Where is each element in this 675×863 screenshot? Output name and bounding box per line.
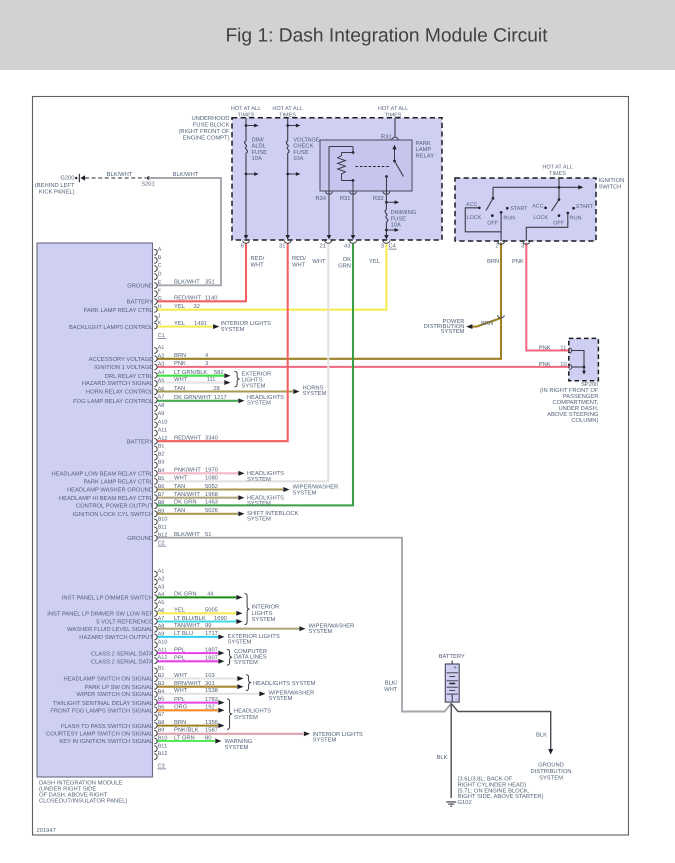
svg-text:BLK: BLK	[437, 755, 448, 761]
svg-text:Fig 1: Dash Integration Module: Fig 1: Dash Integration Module Circuit	[225, 26, 548, 47]
svg-text:SYSTEM: SYSTEM	[247, 400, 271, 407]
svg-text:3: 3	[521, 243, 524, 250]
svg-text:HEADLAMP HI BEAM RELAY CTRL: HEADLAMP HI BEAM RELAY CTRL	[59, 495, 154, 502]
svg-text:2: 2	[495, 243, 498, 250]
svg-text:PARK LAMP RELAY CTRL: PARK LAMP RELAY CTRL	[84, 479, 154, 486]
svg-text:RED/: RED/	[251, 255, 265, 262]
svg-text:BLK/WHT: BLK/WHT	[173, 171, 199, 178]
svg-text:(IN RIGHT FRONT OF: (IN RIGHT FRONT OF	[540, 387, 599, 394]
svg-text:B1: B1	[158, 444, 165, 450]
svg-text:6: 6	[241, 243, 244, 250]
svg-text:WHT: WHT	[174, 688, 188, 694]
svg-text:TAN: TAN	[174, 508, 185, 514]
svg-text:B7: B7	[158, 712, 165, 718]
svg-text:SYSTEM: SYSTEM	[309, 628, 333, 635]
svg-text:5005: 5005	[205, 607, 218, 614]
svg-text:SYSTEM: SYSTEM	[234, 659, 258, 666]
svg-text:GRN: GRN	[338, 263, 351, 270]
svg-text:FUSE BLOCK: FUSE BLOCK	[193, 122, 230, 129]
svg-text:B3: B3	[158, 460, 165, 466]
svg-text:A4: A4	[158, 592, 165, 598]
svg-text:HOT AT ALL: HOT AT ALL	[542, 165, 572, 171]
svg-text:SYSTEM: SYSTEM	[252, 616, 276, 623]
svg-text:B9: B9	[158, 508, 165, 514]
svg-text:1356: 1356	[205, 719, 218, 726]
svg-text:LOCK: LOCK	[467, 215, 482, 221]
svg-text:FUSE: FUSE	[391, 215, 407, 222]
svg-text:B4: B4	[158, 468, 165, 474]
svg-text:ALDL: ALDL	[252, 144, 267, 150]
svg-text:B2: B2	[158, 452, 165, 458]
svg-text:BRN: BRN	[487, 259, 499, 265]
svg-text:RUN: RUN	[503, 215, 515, 221]
svg-text:301: 301	[205, 680, 215, 687]
svg-text:LT BLU: LT BLU	[174, 631, 193, 637]
svg-text:A7: A7	[158, 616, 165, 622]
svg-text:1538: 1538	[205, 687, 218, 694]
svg-text:DISTRIBUTION: DISTRIBUTION	[531, 768, 572, 775]
svg-text:PNK: PNK	[512, 259, 524, 265]
svg-text:FOG LAMP RELAY CONTROL: FOG LAMP RELAY CONTROL	[73, 398, 154, 405]
svg-text:INTERIOR LIGHTS: INTERIOR LIGHTS	[221, 320, 271, 327]
svg-text:FUSE: FUSE	[293, 149, 309, 156]
svg-text:ACC: ACC	[532, 204, 543, 210]
svg-text:C1: C1	[158, 333, 165, 339]
svg-text:A8: A8	[158, 624, 165, 630]
svg-text:PNK: PNK	[539, 345, 551, 351]
svg-text:H: H	[158, 304, 162, 310]
svg-text:PNK: PNK	[539, 362, 551, 368]
svg-text:31: 31	[279, 243, 285, 250]
svg-text:10: 10	[560, 361, 566, 368]
svg-text:C2: C2	[158, 541, 165, 547]
svg-text:DRL RELAY CTRL: DRL RELAY CTRL	[105, 373, 154, 380]
svg-text:43: 43	[344, 243, 350, 250]
svg-text:HEADLIGHTS SYSTEM: HEADLIGHTS SYSTEM	[253, 680, 316, 687]
svg-text:SYSTEM: SYSTEM	[234, 714, 258, 721]
svg-text:B5: B5	[158, 476, 165, 482]
svg-text:R33: R33	[373, 195, 384, 202]
svg-text:PNK: PNK	[174, 361, 186, 367]
svg-text:CHECK: CHECK	[293, 143, 313, 150]
svg-text:TIMES: TIMES	[238, 113, 255, 119]
svg-text:80: 80	[205, 734, 211, 741]
svg-text:5052: 5052	[205, 483, 218, 490]
svg-text:BLK/WHT: BLK/WHT	[174, 279, 200, 286]
svg-text:RED/WHT: RED/WHT	[174, 435, 202, 442]
svg-text:FRONT FOG LAMPS SWITCH SIGNAL: FRONT FOG LAMPS SWITCH SIGNAL	[50, 708, 153, 715]
svg-text:A5: A5	[158, 378, 165, 384]
svg-text:1807: 1807	[205, 655, 218, 662]
svg-text:B6: B6	[158, 704, 165, 710]
svg-text:E: E	[158, 280, 162, 286]
svg-text:(BEHIND LEFT: (BEHIND LEFT	[35, 182, 75, 189]
svg-text:B7: B7	[158, 492, 165, 498]
svg-text:BLK/: BLK/	[385, 679, 398, 686]
svg-text:LT GRN: LT GRN	[174, 734, 195, 741]
svg-text:SP200: SP200	[581, 381, 598, 388]
svg-text:A7: A7	[158, 395, 165, 401]
svg-text:BLK/WHT: BLK/WHT	[174, 531, 200, 538]
svg-text:SYSTEM: SYSTEM	[247, 500, 271, 507]
svg-text:PARK LP SW ON SIGNAL: PARK LP SW ON SIGNAL	[85, 684, 154, 691]
svg-text:B2: B2	[158, 673, 165, 679]
svg-text:10A: 10A	[252, 155, 262, 162]
svg-text:10A: 10A	[391, 222, 401, 229]
svg-text:WHT: WHT	[174, 673, 188, 679]
svg-text:WHT: WHT	[251, 263, 265, 269]
svg-text:ACCESSORY VOLTAGE: ACCESSORY VOLTAGE	[89, 356, 153, 363]
svg-text:BRN: BRN	[174, 720, 186, 726]
svg-text:-: -	[455, 697, 457, 704]
svg-text:BLK/WHT: BLK/WHT	[107, 171, 133, 178]
svg-text:S201: S201	[141, 181, 155, 188]
svg-text:SYSTEM: SYSTEM	[303, 390, 327, 397]
svg-text:YEL: YEL	[174, 608, 186, 614]
svg-text:A2: A2	[158, 576, 165, 582]
svg-text:C4: C4	[389, 243, 397, 250]
svg-text:G102: G102	[458, 799, 472, 806]
svg-text:PPL: PPL	[174, 656, 186, 662]
svg-text:B: B	[158, 255, 162, 261]
svg-text:START: START	[576, 204, 594, 210]
svg-text:INTERIOR: INTERIOR	[252, 603, 280, 610]
svg-text:A6: A6	[158, 608, 165, 614]
svg-text:1140: 1140	[205, 295, 217, 302]
svg-text:LT GRN/BLK: LT GRN/BLK	[174, 369, 207, 376]
svg-text:COURTESY LAMP SWITCH ON SIGNAL: COURTESY LAMP SWITCH ON SIGNAL	[46, 731, 154, 738]
svg-text:EXTERIOR: EXTERIOR	[242, 370, 272, 377]
svg-text:1463: 1463	[205, 499, 218, 506]
svg-text:21: 21	[320, 243, 326, 250]
svg-text:3: 3	[205, 360, 208, 367]
svg-text:1587: 1587	[205, 727, 218, 734]
svg-text:B8: B8	[158, 720, 165, 726]
svg-text:HEADLIGHTS: HEADLIGHTS	[234, 707, 271, 714]
svg-text:LT BLU/BLK: LT BLU/BLK	[174, 615, 206, 622]
svg-text:DK GRN/WHT: DK GRN/WHT	[174, 394, 212, 401]
svg-text:PPL: PPL	[174, 697, 186, 703]
svg-text:WHT: WHT	[384, 687, 398, 693]
svg-text:1807: 1807	[205, 646, 218, 653]
svg-text:INST PANEL LP DIMMER SWITCH: INST PANEL LP DIMMER SWITCH	[62, 595, 153, 602]
svg-text:BRN/WHT: BRN/WHT	[174, 680, 202, 687]
svg-text:LIGHTS: LIGHTS	[242, 376, 263, 383]
svg-text:YEL: YEL	[369, 259, 381, 265]
svg-text:VOLTAGE: VOLTAGE	[293, 136, 320, 143]
svg-text:B9: B9	[158, 728, 165, 734]
svg-text:B5: B5	[158, 697, 165, 703]
svg-text:TAN: TAN	[174, 386, 185, 392]
svg-text:44: 44	[207, 592, 214, 598]
svg-text:SYSTEM: SYSTEM	[539, 775, 563, 782]
svg-text:B6: B6	[158, 484, 165, 490]
svg-text:PARK LAMP RELAY CTRL: PARK LAMP RELAY CTRL	[84, 307, 154, 314]
svg-text:(RIGHT FRONT OF: (RIGHT FRONT OF	[179, 128, 230, 135]
svg-text:+: +	[453, 665, 457, 672]
svg-text:GROUND: GROUND	[127, 535, 153, 542]
svg-text:3340: 3340	[205, 435, 218, 442]
svg-text:B1: B1	[158, 665, 165, 671]
svg-text:START: START	[510, 206, 528, 212]
svg-text:FLASH TO PASS SWITCH SIGNAL: FLASH TO PASS SWITCH SIGNAL	[61, 723, 154, 730]
svg-text:CLOSEOUT/INSULATOR PANEL): CLOSEOUT/INSULATOR PANEL)	[39, 798, 127, 805]
svg-text:K: K	[158, 321, 162, 327]
svg-text:OFF: OFF	[487, 221, 498, 227]
svg-text:1717: 1717	[205, 631, 218, 637]
svg-text:351: 351	[205, 279, 215, 286]
svg-text:ORG: ORG	[174, 704, 188, 711]
svg-text:A: A	[158, 247, 162, 253]
svg-text:1690: 1690	[214, 615, 227, 622]
svg-text:HOT AT ALL: HOT AT ALL	[272, 106, 302, 112]
svg-text:CLASS 2 SERIAL DATA: CLASS 2 SERIAL DATA	[91, 650, 153, 657]
svg-text:PNK/WHT: PNK/WHT	[174, 467, 201, 474]
svg-text:HOT AT ALL: HOT AT ALL	[378, 106, 408, 112]
svg-text:B10: B10	[158, 516, 168, 522]
svg-text:DIM/: DIM/	[252, 136, 265, 143]
svg-text:1080: 1080	[205, 475, 218, 482]
svg-text:ABOVE STEERING: ABOVE STEERING	[547, 411, 599, 418]
svg-text:111: 111	[207, 377, 216, 383]
svg-text:YEL: YEL	[174, 321, 186, 327]
svg-text:TAN: TAN	[174, 484, 185, 490]
svg-text:SYSTEM: SYSTEM	[441, 328, 465, 335]
svg-text:A6: A6	[158, 386, 165, 392]
svg-text:CONTROL POWER OUTPUT: CONTROL POWER OUTPUT	[76, 503, 154, 510]
svg-text:G200: G200	[60, 174, 74, 181]
svg-text:A10: A10	[158, 639, 168, 645]
svg-text:A12: A12	[158, 655, 168, 661]
svg-text:SYSTEM: SYSTEM	[293, 489, 317, 496]
svg-text:B4: B4	[158, 689, 165, 695]
svg-text:A2: A2	[158, 353, 165, 359]
svg-text:HAZARD SWITCH OUTPUT: HAZARD SWITCH OUTPUT	[79, 634, 153, 641]
svg-text:BATTERY: BATTERY	[127, 439, 153, 445]
svg-text:PASSENGER: PASSENGER	[563, 393, 599, 400]
svg-text:UNDERHOOD: UNDERHOOD	[191, 115, 229, 122]
svg-text:B8: B8	[158, 500, 165, 506]
svg-text:GROUND: GROUND	[538, 761, 564, 768]
svg-text:1217: 1217	[214, 394, 227, 401]
svg-text:DASH INTEGRATION MODULE: DASH INTEGRATION MODULE	[39, 780, 122, 787]
svg-text:B12: B12	[158, 533, 168, 539]
svg-text:R34: R34	[315, 195, 326, 202]
svg-text:32: 32	[194, 303, 200, 310]
svg-text:1968: 1968	[205, 491, 218, 498]
svg-text:BACKLIGHT LAMPS CONTROL: BACKLIGHT LAMPS CONTROL	[69, 324, 154, 331]
svg-text:A3: A3	[158, 584, 165, 590]
svg-text:B11: B11	[158, 743, 167, 749]
svg-text:RED/WHT: RED/WHT	[174, 295, 202, 302]
svg-text:5 VOLT REFERENCE: 5 VOLT REFERENCE	[96, 619, 153, 626]
svg-text:WIPER SWITCH ON SIGNAL: WIPER SWITCH ON SIGNAL	[76, 691, 153, 698]
svg-text:A4: A4	[158, 370, 165, 376]
svg-text:PPL: PPL	[174, 647, 186, 653]
svg-text:PNK/BLK: PNK/BLK	[174, 727, 199, 734]
svg-text:SYSTEM: SYSTEM	[247, 476, 271, 483]
svg-text:B3: B3	[158, 681, 165, 687]
svg-text:SYSTEM: SYSTEM	[313, 737, 337, 744]
svg-text:IGNITION 1 VOLTAGE: IGNITION 1 VOLTAGE	[94, 364, 153, 371]
svg-text:DK: DK	[343, 257, 351, 263]
svg-text:WHT: WHT	[174, 476, 188, 482]
svg-text:SYSTEM: SYSTEM	[221, 326, 245, 333]
svg-text:COLUMN): COLUMN)	[571, 417, 598, 424]
svg-text:IGNITION LOCK CYL SWITCH: IGNITION LOCK CYL SWITCH	[73, 511, 153, 518]
svg-text:HOT AT ALL: HOT AT ALL	[231, 106, 261, 112]
svg-text:A11: A11	[158, 428, 167, 434]
svg-text:BRN: BRN	[481, 321, 493, 327]
svg-text:28: 28	[213, 385, 219, 392]
svg-text:5026: 5026	[205, 507, 218, 514]
svg-text:BRN: BRN	[174, 353, 186, 359]
svg-text:103: 103	[205, 672, 215, 679]
svg-text:A9: A9	[158, 411, 165, 417]
svg-text:201947: 201947	[37, 827, 56, 834]
svg-text:B10: B10	[158, 736, 168, 742]
svg-text:DK GRN: DK GRN	[174, 499, 197, 506]
svg-text:TAN/WHT: TAN/WHT	[174, 491, 200, 498]
svg-text:582: 582	[214, 369, 224, 376]
svg-text:LIGHTS: LIGHTS	[252, 610, 273, 617]
svg-text:A10: A10	[158, 419, 168, 425]
svg-text:A8: A8	[158, 403, 165, 409]
svg-text:3: 3	[381, 243, 384, 250]
svg-text:HAZARD SWITCH SIGNAL: HAZARD SWITCH SIGNAL	[82, 380, 154, 387]
svg-text:RED/: RED/	[292, 255, 306, 262]
svg-text:SYSTEM: SYSTEM	[269, 695, 293, 702]
svg-text:WHT: WHT	[292, 263, 306, 269]
svg-text:LOCK: LOCK	[533, 215, 548, 221]
svg-text:GROUND: GROUND	[127, 283, 153, 290]
svg-text:1970: 1970	[205, 467, 218, 474]
svg-text:(UNDER RIGHT SIDE: (UNDER RIGHT SIDE	[39, 786, 96, 793]
svg-text:C3: C3	[158, 763, 165, 769]
svg-text:A9: A9	[158, 632, 165, 638]
svg-text:TIMES: TIMES	[549, 171, 566, 177]
svg-text:R32: R32	[381, 134, 392, 141]
svg-text:SYSTEM: SYSTEM	[228, 639, 252, 646]
svg-text:SWITCH: SWITCH	[599, 183, 622, 190]
svg-text:TIMES: TIMES	[279, 113, 296, 119]
svg-text:SYSTEM: SYSTEM	[225, 744, 249, 751]
svg-text:SYSTEM: SYSTEM	[247, 516, 271, 523]
svg-text:99: 99	[205, 622, 211, 629]
svg-text:COMPARTMENT,: COMPARTMENT,	[553, 399, 599, 406]
svg-text:51: 51	[205, 532, 211, 538]
svg-text:PARK: PARK	[416, 141, 431, 147]
svg-text:HEADLAMP SWITCH ON SIGNAL: HEADLAMP SWITCH ON SIGNAL	[64, 676, 154, 683]
svg-text:RUN: RUN	[570, 215, 582, 221]
svg-text:ACC: ACC	[466, 202, 477, 208]
svg-text:WHT: WHT	[312, 259, 326, 265]
svg-text:IGNITION: IGNITION	[599, 177, 625, 184]
svg-text:11: 11	[560, 345, 566, 351]
svg-text:HEADLAMP LOW BEAM RELAY CTRL: HEADLAMP LOW BEAM RELAY CTRL	[52, 471, 154, 478]
svg-text:BATTERY: BATTERY	[127, 300, 153, 306]
svg-text:C: C	[158, 263, 162, 269]
svg-text:RELAY: RELAY	[416, 153, 435, 159]
svg-text:CLASS 2 SERIAL DATA: CLASS 2 SERIAL DATA	[91, 659, 153, 666]
svg-text:A1: A1	[158, 345, 165, 351]
svg-text:DIMMING: DIMMING	[391, 209, 417, 216]
svg-text:WASHER FLUID LEVEL SIGNAL: WASHER FLUID LEVEL SIGNAL	[67, 626, 154, 633]
svg-text:B12: B12	[158, 751, 168, 757]
svg-text:BATTERY: BATTERY	[439, 654, 465, 660]
svg-text:R31: R31	[340, 195, 351, 202]
svg-text:INST PANEL LP DIMMER SW LOW RE: INST PANEL LP DIMMER SW LOW REF	[47, 611, 153, 618]
svg-text:A5: A5	[158, 600, 165, 606]
svg-text:HORN RELAY CONTROL: HORN RELAY CONTROL	[86, 389, 154, 396]
svg-text:A1: A1	[158, 569, 165, 575]
svg-text:WHT: WHT	[174, 377, 188, 383]
svg-text:TIMES: TIMES	[385, 113, 402, 119]
svg-text:A12: A12	[158, 436, 168, 442]
svg-text:BLK: BLK	[536, 732, 547, 738]
svg-text:1783: 1783	[205, 696, 218, 703]
svg-text:UNDER DASH,: UNDER DASH,	[558, 405, 598, 412]
svg-text:G: G	[158, 296, 162, 302]
svg-text:KEY IN IGNITION SWITCH SIGNAL: KEY IN IGNITION SWITCH SIGNAL	[59, 738, 153, 745]
svg-text:DK GRN: DK GRN	[174, 591, 197, 598]
svg-text:HEADLAMP WASHER GROUND: HEADLAMP WASHER GROUND	[67, 487, 153, 494]
svg-text:FUSE: FUSE	[252, 149, 268, 156]
svg-text:B11: B11	[158, 525, 167, 531]
svg-text:A3: A3	[158, 362, 165, 368]
svg-text:TAN/WHT: TAN/WHT	[174, 622, 200, 629]
svg-text:D: D	[158, 271, 162, 277]
svg-text:1491: 1491	[194, 320, 207, 327]
svg-text:LAMP: LAMP	[416, 147, 432, 153]
svg-text:OF DASH, ABOVE RIGHT: OF DASH, ABOVE RIGHT	[39, 792, 108, 799]
svg-text:J: J	[158, 313, 161, 319]
svg-text:SYSTEM: SYSTEM	[242, 382, 266, 389]
svg-text:192: 192	[205, 704, 215, 711]
svg-text:ENGINE COMPT): ENGINE COMPT)	[183, 135, 230, 142]
svg-text:10A: 10A	[293, 155, 303, 162]
svg-text:OFF: OFF	[553, 221, 564, 227]
svg-text:A11: A11	[158, 647, 167, 653]
svg-text:TWILIGHT SENTINAL DELAY SIGNAL: TWILIGHT SENTINAL DELAY SIGNAL	[53, 700, 154, 707]
svg-text:KICK PANEL): KICK PANEL)	[39, 189, 75, 196]
svg-text:YEL: YEL	[174, 304, 186, 310]
